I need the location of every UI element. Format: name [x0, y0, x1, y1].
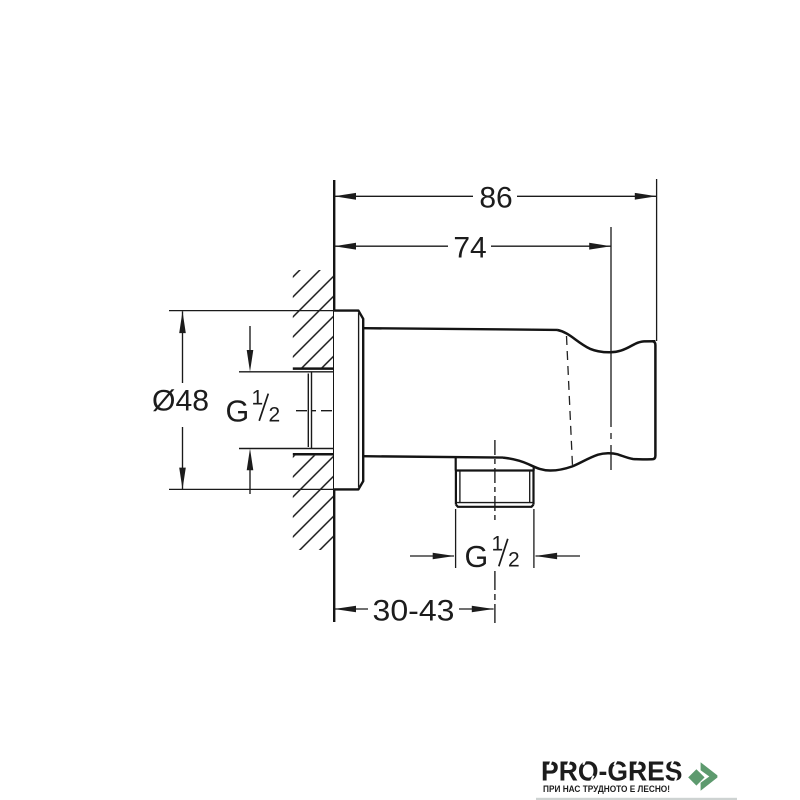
pipe centerline [296, 410, 335, 412]
dim 30-43 line [334, 608, 493, 610]
label G 1/2 bottom [465, 532, 520, 574]
phantom transition dashed line [567, 336, 573, 466]
wall hole bottom edge [293, 453, 335, 456]
holder top saddle curve [557, 330, 655, 352]
svg-text:1: 1 [492, 532, 504, 555]
svg-text:74: 74 [453, 232, 486, 265]
dim 74 line [334, 245, 611, 247]
svg-text:2: 2 [508, 548, 520, 571]
dim O48 line [182, 311, 184, 489]
svg-text:PRO-GRES: PRO-GRES [541, 755, 683, 787]
svg-text:G: G [465, 540, 489, 574]
svg-text:30-43: 30-43 [373, 595, 455, 628]
label G 1/2 left [226, 387, 281, 429]
dim O48 extension bottom [169, 488, 335, 490]
dim 86 arrows [334, 193, 656, 200]
body top outline [363, 328, 557, 330]
dim 74 arrows [334, 243, 611, 250]
bottom connector thread block [456, 471, 534, 507]
logo stencil slits [548, 759, 677, 781]
connector centerline [494, 440, 496, 523]
left thread dim arrow down [249, 326, 251, 352]
pipe G1/2 inlet outline (top and bottom, extend left as extension lines) [239, 372, 334, 449]
wall hole top edge [293, 367, 335, 370]
dim 30-43 arrows [334, 606, 493, 613]
pipe thread end lines [308, 372, 311, 448]
svg-text:Ø48: Ø48 [152, 385, 209, 418]
bottom G1/2 dim extension lines [456, 509, 534, 568]
logo diamond [688, 769, 704, 785]
svg-text:2: 2 [269, 404, 281, 427]
bottom connector collar [456, 458, 534, 471]
svg-text:1: 1 [252, 387, 264, 410]
escutcheon flange [334, 311, 363, 490]
dim 86 line [334, 195, 656, 197]
svg-text:ПРИ НАС ТРУДНОТО Е ЛЕСНО!: ПРИ НАС ТРУДНОТО Е ЛЕСНО! [543, 784, 670, 795]
flange rim edge line [358, 313, 360, 487]
svg-text:86: 86 [479, 182, 512, 215]
dim O48 extension top [169, 310, 335, 312]
bottom gray band [536, 798, 737, 800]
dim 86 extension right [656, 179, 658, 341]
holder bottom saddle curve [503, 453, 652, 470]
dim O48 arrows [179, 311, 186, 489]
wall hatching lower [293, 456, 334, 550]
wall hatching upper [293, 270, 334, 368]
left thread dim arrow up [249, 468, 251, 494]
holder right edge [652, 341, 655, 459]
body bottom outline [363, 456, 503, 457]
bottom G1/2 dim lines and arrows [410, 555, 580, 557]
connector thread inner lines [457, 471, 534, 503]
dim 74 extension right (dash-dot) [610, 227, 612, 470]
logo chevron [701, 762, 718, 791]
svg-text:G: G [226, 395, 250, 429]
wall face line [333, 180, 335, 622]
